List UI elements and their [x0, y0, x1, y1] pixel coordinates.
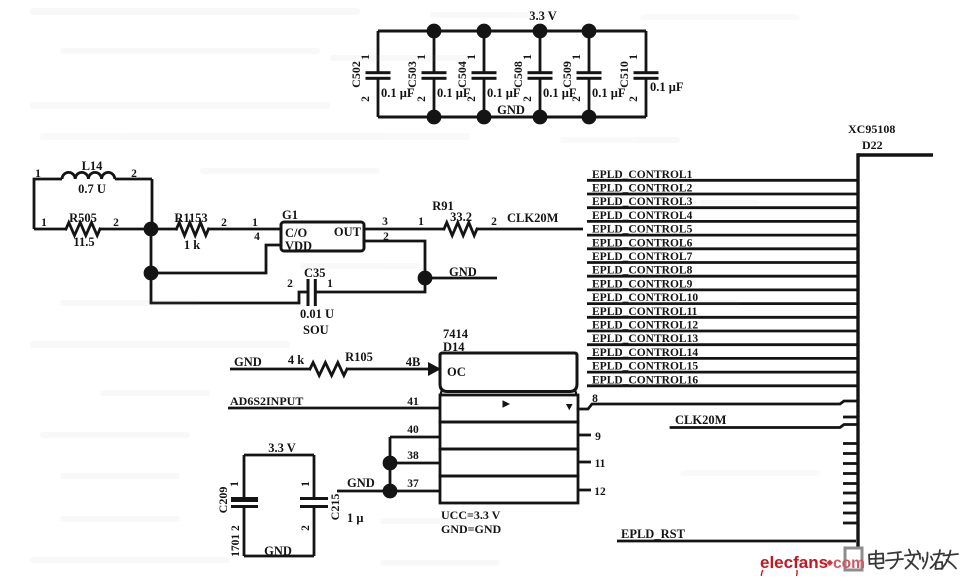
- wire: [244, 454, 314, 457]
- svg-text:11: 11: [595, 458, 606, 470]
- svg-text:C215: C215: [328, 494, 342, 521]
- wire pin 40: [390, 436, 440, 439]
- D22 pin stub y=473.5: [843, 472, 858, 475]
- svg-text:1: 1: [628, 54, 640, 60]
- svg-text:1 k: 1 k: [184, 238, 200, 252]
- R1153 body: [177, 223, 209, 236]
- svg-text:C509: C509: [560, 61, 574, 88]
- R91 body: [444, 223, 477, 236]
- svg-text:33.2: 33.2: [450, 210, 472, 224]
- svg-text:1: 1: [252, 217, 258, 229]
- svg-text:AD6S2INPUT: AD6S2INPUT: [230, 394, 303, 408]
- wire: [243, 508, 246, 556]
- R505 body: [66, 223, 100, 236]
- wire: [34, 228, 66, 231]
- svg-text:9: 9: [595, 431, 601, 443]
- junction pin38 node: [383, 456, 398, 471]
- svg-text:com: com: [833, 555, 865, 572]
- svg-text:2: 2: [466, 96, 478, 102]
- svg-text:1: 1: [571, 54, 583, 60]
- svg-text:R105: R105: [345, 350, 373, 364]
- capacitor C509: [560, 31, 626, 117]
- capacitor C209: [216, 481, 258, 557]
- svg-text:1: 1: [35, 168, 41, 180]
- junction top rail x=434: [427, 24, 442, 39]
- svg-text:3.3 V: 3.3 V: [268, 441, 296, 455]
- svg-text:2: 2: [416, 96, 428, 102]
- svg-text:1: 1: [41, 217, 47, 229]
- svg-text:C503: C503: [405, 61, 419, 88]
- svg-text:EPLD_RST: EPLD_RST: [621, 527, 686, 541]
- svg-text:2: 2: [571, 96, 583, 102]
- svg-text:2: 2: [131, 168, 137, 180]
- inductor L14: [34, 159, 152, 229]
- stub pin 11: [578, 461, 591, 464]
- svg-text:4 k: 4 k: [288, 353, 304, 367]
- svg-text:2: 2: [522, 96, 534, 102]
- wire: [364, 228, 444, 231]
- oscillator G1: [254, 208, 364, 253]
- svg-text:0.1 μF: 0.1 μF: [650, 80, 684, 94]
- wire vertical gnd tie: [389, 437, 392, 491]
- svg-text:2: 2: [221, 217, 227, 229]
- svg-text:L14: L14: [82, 159, 104, 173]
- svg-text:OC: OC: [447, 365, 466, 379]
- svg-text:0.01 U: 0.01 U: [300, 307, 334, 321]
- junction bottom rail x=540: [533, 110, 548, 125]
- junction top rail x=589: [582, 24, 597, 39]
- capacitor C510: [617, 31, 684, 117]
- junction bottom rail x=589: [582, 110, 597, 125]
- svg-text:C/O: C/O: [285, 226, 308, 240]
- resistor R1153: [151, 211, 281, 252]
- wire VDD pin4 to node B: [151, 245, 281, 273]
- junction top rail x=484: [477, 24, 492, 39]
- svg-text:D22: D22: [862, 138, 883, 152]
- svg-text:1 μ: 1 μ: [347, 511, 363, 525]
- capacitor C502: [349, 31, 415, 117]
- svg-text:XC95108: XC95108: [848, 122, 895, 136]
- wire: [347, 368, 429, 371]
- svg-text:41: 41: [407, 396, 419, 408]
- junction top rail x=540: [533, 24, 548, 39]
- junction node B: [144, 266, 159, 281]
- svg-text:1701 2: 1701 2: [230, 525, 242, 557]
- svg-text:2: 2: [628, 96, 640, 102]
- IC D14 gate rows: [440, 395, 578, 503]
- scan noise (decorative): [30, 8, 820, 566]
- wire L14 pin2 down to node: [151, 179, 154, 229]
- wire: [243, 455, 246, 497]
- watermark elecfans.com: [760, 553, 865, 576]
- junction bottom rail x=484: [477, 110, 492, 125]
- svg-text:1: 1: [418, 216, 424, 228]
- wire pin 8 to D22: [578, 401, 858, 409]
- wire: [208, 228, 281, 231]
- svg-text:C502: C502: [349, 61, 363, 88]
- svg-text:8: 8: [592, 393, 598, 405]
- svg-text:C504: C504: [455, 61, 469, 88]
- D22 pin stub y=483.5: [843, 482, 858, 485]
- watermark chinese characters: [869, 550, 958, 570]
- junction node A (R505/R1153/L14): [144, 222, 159, 237]
- svg-text:R1153: R1153: [174, 211, 207, 225]
- svg-text:2: 2: [491, 216, 497, 228]
- svg-text:CLK20M: CLK20M: [507, 211, 559, 225]
- wire node A down: [150, 229, 153, 303]
- IC D14 OC box: [440, 353, 577, 395]
- svg-text:C508: C508: [511, 61, 525, 88]
- D22 pin stub y=463.5: [843, 462, 858, 465]
- stub pin 9: [578, 434, 591, 437]
- svg-text:GND: GND: [449, 265, 477, 279]
- svg-text:3: 3: [382, 216, 388, 228]
- svg-text:1: 1: [229, 481, 241, 487]
- D22 pin stub y=453.5: [843, 452, 858, 455]
- R105 body: [310, 363, 347, 376]
- svg-text:2: 2: [360, 96, 372, 102]
- wire: [100, 228, 151, 231]
- wire: [230, 368, 310, 371]
- svg-text:7414: 7414: [443, 327, 469, 341]
- arrowhead into OC: [428, 362, 441, 376]
- IC D22 outline: [858, 153, 933, 552]
- svg-text:2: 2: [113, 217, 119, 229]
- svg-text:1: 1: [522, 54, 534, 60]
- wire: [313, 455, 316, 497]
- junction GND node: [418, 271, 433, 286]
- svg-text:0.7 U: 0.7 U: [78, 182, 106, 196]
- svg-text:GND: GND: [234, 355, 262, 369]
- resistor R91: [382, 199, 583, 236]
- svg-text:11.5: 11.5: [73, 235, 94, 249]
- svg-text:C209: C209: [216, 487, 230, 514]
- D22 pin stub y=513: [843, 512, 858, 515]
- wire: [244, 555, 314, 558]
- D22 pin stub y=493: [843, 492, 858, 495]
- wire EPLD_RST to D22: [617, 540, 856, 543]
- capacitor C508: [511, 31, 577, 117]
- D22 pin stub y=417: [843, 416, 858, 419]
- wire pin 38: [390, 462, 440, 465]
- D22 pin stub y=503: [843, 502, 858, 505]
- wire C35 pin1 to GND node: [317, 278, 425, 292]
- svg-text:40: 40: [407, 424, 419, 436]
- wire: [313, 508, 316, 556]
- svg-text:2: 2: [287, 278, 293, 290]
- junction bottom rail x=434: [427, 110, 442, 125]
- junction pin37 node: [383, 484, 398, 499]
- svg-text:G1: G1: [282, 208, 298, 222]
- svg-text:CLK20M: CLK20M: [675, 413, 727, 427]
- capacitor C215: [300, 481, 363, 531]
- capacitor C503: [405, 31, 471, 117]
- svg-text:C510: C510: [617, 61, 631, 88]
- wire G1 pin2 down: [364, 241, 425, 278]
- wire AD6S2INPUT to pin 41: [228, 407, 440, 410]
- svg-text:1: 1: [327, 278, 333, 290]
- svg-text:2: 2: [300, 525, 312, 531]
- svg-text:GND=GND: GND=GND: [441, 522, 502, 536]
- wire to GND: [425, 277, 497, 280]
- svg-text:38: 38: [407, 450, 419, 462]
- wire: [151, 228, 177, 231]
- svg-text:4B: 4B: [406, 355, 421, 369]
- svg-text:12: 12: [594, 486, 606, 498]
- svg-text:4: 4: [254, 231, 260, 243]
- svg-text:37: 37: [407, 478, 419, 490]
- svg-text:elecfans: elecfans: [760, 553, 828, 572]
- svg-text:VDD: VDD: [285, 239, 312, 253]
- stub pin 12: [578, 489, 591, 492]
- watermark grey square: [845, 548, 862, 570]
- svg-text:R505: R505: [69, 211, 97, 225]
- D22 pin stub y=443.5: [843, 442, 858, 445]
- svg-text:SOU: SOU: [303, 323, 329, 337]
- capacitor C35: [287, 266, 334, 337]
- node GND rail (bottom of decoupling bank): [378, 115, 646, 118]
- svg-text:1: 1: [300, 481, 312, 487]
- resistor R505: [34, 211, 151, 249]
- capacitor C504: [455, 31, 521, 117]
- D22 pin stub y=523: [843, 522, 858, 525]
- resistor R105: [288, 350, 429, 376]
- svg-text:GND: GND: [497, 103, 525, 117]
- node 3.3V rail (top decoupling bank): [378, 29, 646, 32]
- wire bottom rail to C35 pin2: [151, 292, 307, 303]
- wire CLK20M to D22: [671, 425, 858, 428]
- svg-text:GND: GND: [347, 476, 375, 490]
- svg-text:OUT: OUT: [334, 225, 362, 239]
- svg-text:GND: GND: [264, 544, 292, 558]
- wire: [477, 228, 583, 231]
- wire GND to pin 37: [337, 490, 440, 493]
